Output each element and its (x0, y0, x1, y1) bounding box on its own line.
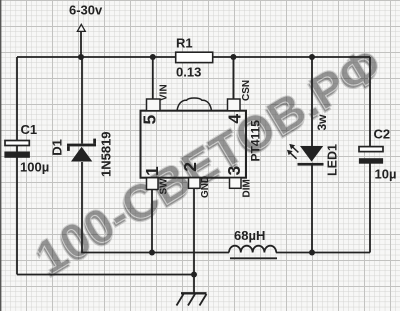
svg-text:LED1: LED1 (326, 144, 340, 176)
capacitor C2 (359, 147, 383, 152)
svg-text:1N5819: 1N5819 (99, 131, 114, 177)
node VIN junction (150, 54, 156, 60)
IC top orientation bump (177, 98, 212, 111)
svg-text:CSN: CSN (241, 80, 252, 101)
svg-text:100µ: 100µ (20, 160, 49, 175)
pin 5 tab (147, 99, 161, 111)
resistor R1 (176, 52, 213, 62)
pin 4 tab (228, 99, 241, 111)
svg-text:SW: SW (159, 178, 170, 195)
capacitor C1 (5, 141, 29, 146)
svg-text:3: 3 (224, 166, 244, 176)
wire VIN pin (152, 57, 154, 100)
LED1 (298, 146, 324, 166)
wire left rail (16, 57, 18, 275)
node SW junction (149, 250, 155, 256)
node LED junction (309, 54, 315, 60)
wire right rail (C2 top) (369, 57, 371, 147)
svg-text:DIM: DIM (242, 179, 253, 197)
node GND junction (191, 272, 197, 278)
svg-text:10µ: 10µ (375, 167, 397, 182)
wire GND pin drop (193, 188, 195, 293)
inductor core line (230, 257, 277, 259)
diode D1 (schottky 1N5819) (67, 139, 96, 162)
svg-text:1: 1 (142, 166, 162, 176)
inductor L1 68µH (229, 246, 276, 253)
svg-text:R1: R1 (176, 36, 193, 51)
wire D1 top (81, 57, 83, 144)
svg-text:68µH: 68µH (234, 228, 265, 243)
svg-text:GND: GND (200, 176, 211, 198)
node LED cathode junction (309, 250, 315, 256)
watermark 100-CBETOB.PФ (25, 37, 393, 289)
wire input drop (80, 32, 82, 58)
svg-text:C2: C2 (374, 127, 391, 142)
svg-text:6-30v: 6-30v (69, 3, 103, 18)
IC U1 PT4115 body (141, 111, 247, 178)
wire SW line right (276, 252, 370, 254)
wire LED cathode (311, 165, 313, 253)
ground (177, 293, 207, 305)
svg-text:PT4115: PT4115 (249, 120, 263, 162)
wire bottom (ground) (17, 274, 194, 276)
node input junction (78, 54, 84, 60)
svg-text:4: 4 (224, 114, 244, 124)
svg-text:D1: D1 (50, 139, 65, 156)
wire LED anode (311, 57, 313, 147)
pin 1 tab (147, 178, 159, 190)
wire top rail (17, 56, 370, 58)
svg-text:3w: 3w (315, 114, 329, 131)
svg-text:5: 5 (139, 115, 159, 125)
svg-text:0.13: 0.13 (176, 65, 201, 80)
node CSN junction (230, 54, 236, 60)
pin 3 tab (230, 178, 242, 189)
wire SW pin drop (151, 190, 153, 253)
pin 2 tab (189, 178, 201, 189)
wire C2 bottom (369, 164, 371, 253)
input arrow 6-30v (77, 24, 85, 31)
wire CSN pin (232, 57, 234, 100)
LED arrows (287, 144, 299, 159)
svg-text:C1: C1 (21, 122, 38, 137)
wire SW line left (82, 162, 229, 253)
scan edge artifacts (0, 0, 1, 311)
svg-text:2: 2 (180, 162, 200, 172)
svg-text:VIN: VIN (159, 84, 170, 101)
